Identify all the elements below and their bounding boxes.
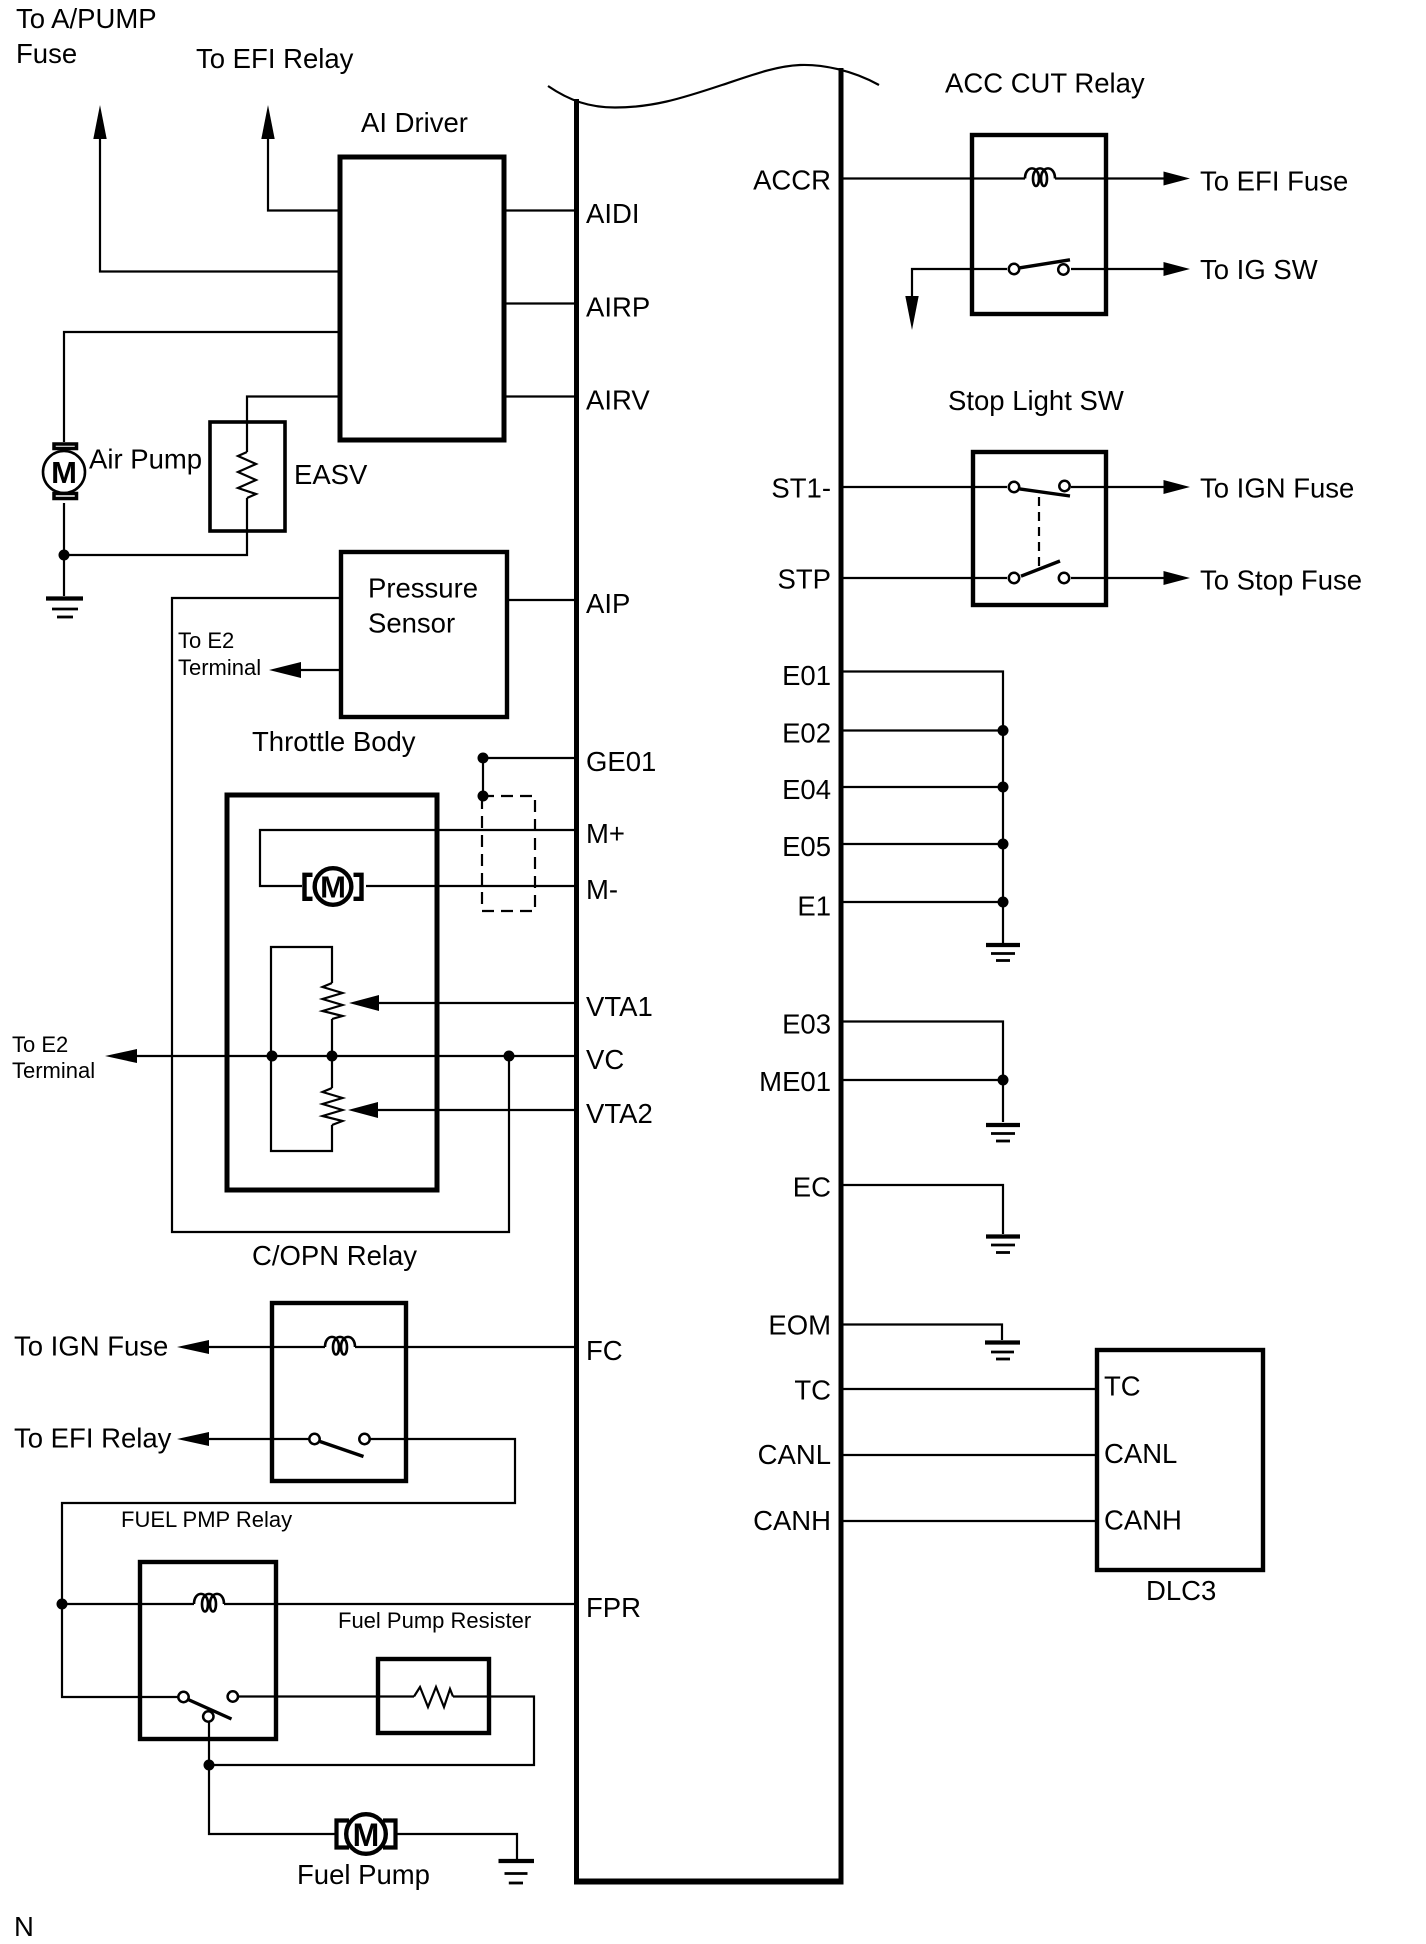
arrow VC to E2 terminal: [105, 1049, 137, 1063]
wire FC left of coil: [205, 1346, 325, 1348]
svg-text:FC: FC: [586, 1335, 623, 1366]
arrow to A/PUMP fuse: [93, 105, 106, 139]
svg-text:E1: E1: [797, 891, 831, 922]
svg-text:ST1-: ST1-: [771, 473, 831, 504]
arrow to EFI relay: [177, 1432, 209, 1446]
Pressure Sensor: [341, 552, 507, 717]
junction shield: [478, 791, 489, 802]
ground (fuel pump): [499, 1861, 535, 1883]
wire AIP: [507, 599, 576, 601]
wire AIDI to EFI relay: [268, 137, 338, 211]
svg-text:M: M: [320, 870, 346, 905]
resistor VTA1: [323, 983, 343, 1019]
ECU top break (wavy line): [548, 65, 879, 108]
fuel pump resister box: [378, 1659, 489, 1733]
svg-text:Stop Light SW: Stop Light SW: [948, 385, 1124, 416]
wire into resistor: [378, 1695, 414, 1697]
wire C/OPN switch to fuel pump relay: [62, 1439, 515, 1697]
svg-text:M: M: [51, 455, 77, 490]
svg-text:EOM: EOM: [768, 1310, 831, 1341]
svg-text:CANH: CANH: [1104, 1505, 1182, 1536]
arrow to EFI fuse: [1164, 172, 1191, 186]
junction E02: [998, 725, 1009, 736]
right edge middle segment: [331, 1019, 333, 1088]
wire GE01: [483, 757, 576, 759]
svg-text:Air Pump: Air Pump: [89, 444, 202, 475]
wire VC loop to pressure sensor: [172, 598, 509, 1232]
wire AIRP to A/PUMP fuse: [100, 137, 338, 272]
svg-text:Throttle Body: Throttle Body: [252, 726, 416, 757]
svg-text:GE01: GE01: [586, 746, 656, 777]
junction VC pot wiper: [327, 1051, 338, 1062]
resistor inside EASV: [238, 452, 256, 498]
wire M+: [260, 830, 576, 886]
svg-text:C/OPN Relay: C/OPN Relay: [252, 1240, 417, 1271]
svg-text:M+: M+: [586, 818, 625, 849]
wire air pump to ground: [63, 503, 65, 596]
junction FPR: [57, 1599, 68, 1610]
wire CANH: [841, 1520, 1097, 1522]
ACC switch blade: [1020, 260, 1070, 268]
svg-text:AI Driver: AI Driver: [361, 107, 468, 138]
svg-text:Fuel Pump: Fuel Pump: [297, 1859, 430, 1890]
arrow to IGN fuse: [1164, 480, 1191, 494]
wire AIRV: [504, 395, 576, 397]
junction VC loop: [504, 1051, 515, 1062]
ECU main box: right edge: [839, 68, 844, 1884]
svg-text:Terminal: Terminal: [12, 1058, 95, 1083]
svg-text:Fuse: Fuse: [16, 38, 77, 69]
svg-text:E05: E05: [782, 831, 831, 862]
wire CANL: [841, 1454, 1097, 1456]
fuel pmp switch contact right: [228, 1691, 238, 1701]
resistor element: [414, 1687, 453, 1707]
throttle motor M: [305, 868, 362, 905]
wire E04: [841, 786, 1003, 788]
DLC3 connector: [1097, 1350, 1263, 1570]
arrow VTA1 wiper: [349, 995, 379, 1011]
svg-text:To E2: To E2: [178, 628, 234, 653]
svg-text:Sensor: Sensor: [368, 608, 455, 639]
arrow to IGN fuse: [177, 1340, 209, 1354]
relay coil (C/OPN): [325, 1337, 355, 1355]
wire ST1-: [841, 486, 1007, 488]
svg-text:To A/PUMP: To A/PUMP: [16, 3, 157, 34]
wire switch to resistor: [239, 1695, 378, 1697]
C/OPN switch contact left: [309, 1434, 319, 1444]
FUEL PMP relay box: [140, 1562, 276, 1739]
air pump motor M: [43, 444, 85, 499]
stop SW blade (bottom): [1021, 561, 1060, 576]
svg-text:E02: E02: [782, 718, 831, 749]
wire TC: [841, 1388, 1097, 1390]
junction E04: [998, 782, 1009, 793]
stop SW link (dashed): [1038, 497, 1040, 567]
wire to EFI relay: [207, 1438, 310, 1440]
junction E1: [998, 897, 1009, 908]
ECU main box: left edge: [574, 99, 579, 1884]
wire E05: [841, 843, 1003, 845]
wire VC: [135, 1055, 576, 1057]
junction fuel pump: [204, 1760, 215, 1771]
ECU main box: bottom edge: [574, 1879, 844, 1885]
wire FPR left of coil: [62, 1603, 194, 1605]
ground (air pump): [46, 599, 83, 618]
svg-text:N: N: [14, 1911, 34, 1942]
wire AIDI: [504, 209, 576, 211]
arrow to EFI relay: [261, 105, 274, 139]
wire EC: [841, 1185, 1003, 1234]
fuel pmp switch blade: [187, 1699, 232, 1719]
fuel pmp switch contact left: [178, 1692, 188, 1702]
wire EOM: [841, 1325, 1002, 1341]
svg-text:VC: VC: [586, 1044, 624, 1075]
ground (E01 group): [986, 945, 1020, 961]
svg-text:E04: E04: [782, 774, 831, 805]
stop SW blade (top): [1020, 489, 1070, 496]
svg-text:FPR: FPR: [586, 1592, 641, 1623]
wire E02: [841, 729, 1003, 731]
C/OPN switch contact right: [359, 1434, 369, 1444]
svg-text:To EFI Relay: To EFI Relay: [14, 1423, 172, 1454]
svg-text:CANL: CANL: [758, 1439, 831, 1470]
wire VTA1: [377, 1002, 576, 1004]
ACC switch contact left: [1009, 264, 1019, 274]
ground (E03/ME01): [986, 1125, 1020, 1141]
arrow to E2 terminal (pressure sensor): [269, 662, 301, 678]
junction GE01: [478, 753, 489, 764]
junction E05: [998, 839, 1009, 850]
svg-text:Pressure: Pressure: [368, 573, 478, 604]
wire resistor out: [209, 1697, 534, 1766]
wire VTA2: [376, 1109, 576, 1111]
wire to stop fuse: [1071, 577, 1165, 579]
relay coil (ACC CUT): [1025, 168, 1055, 186]
fuel pump motor M: [337, 1814, 396, 1854]
wire to IGN fuse: [1071, 486, 1165, 488]
arrow VTA2 wiper: [348, 1102, 378, 1118]
svg-text:AIRP: AIRP: [586, 292, 650, 323]
ACC switch contact right: [1058, 264, 1068, 274]
arrow down (ACC): [905, 296, 918, 330]
stop SW contact left (bottom): [1009, 573, 1019, 583]
C/OPN switch blade: [320, 1442, 364, 1457]
wire E03: [841, 1022, 1003, 1123]
C/OPN relay box: [272, 1303, 406, 1481]
arrow to IG SW: [1164, 262, 1191, 276]
svg-text:To E2: To E2: [12, 1032, 68, 1057]
stop SW contact right (bottom): [1059, 573, 1069, 583]
svg-text:EC: EC: [793, 1172, 831, 1203]
junction ME01: [998, 1075, 1009, 1086]
wire pressure sensor to E2 terminal: [299, 669, 341, 671]
wire FC right of coil: [355, 1346, 576, 1348]
svg-text:M: M: [353, 1817, 380, 1853]
svg-text:AIP: AIP: [586, 588, 630, 619]
svg-text:Fuel Pump Resister: Fuel Pump Resister: [338, 1608, 531, 1633]
svg-text:M-: M-: [586, 874, 618, 905]
svg-text:E01: E01: [782, 660, 831, 691]
svg-text:To EFI Relay: To EFI Relay: [196, 43, 354, 74]
EASV valve: [210, 422, 285, 531]
svg-text:To Stop Fuse: To Stop Fuse: [1200, 565, 1362, 596]
throttle body box: [227, 795, 437, 1190]
junction VC pot left: [267, 1051, 278, 1062]
fuel pmp switch contact bottom: [203, 1711, 213, 1721]
throttle position sensor body: [271, 947, 332, 1151]
ground (EC): [986, 1237, 1020, 1253]
stop SW contact right (top): [1059, 481, 1069, 491]
wire fuel pump to ground: [396, 1834, 517, 1859]
svg-text:ACCR: ACCR: [753, 165, 831, 196]
svg-text:FUEL PMP Relay: FUEL PMP Relay: [121, 1507, 292, 1532]
shield connector (dashed): [482, 796, 535, 911]
svg-text:CANL: CANL: [1104, 1438, 1177, 1469]
svg-text:EASV: EASV: [294, 459, 368, 490]
svg-text:TC: TC: [794, 1375, 831, 1406]
wire M-: [366, 885, 576, 887]
svg-text:To IGN Fuse: To IGN Fuse: [1200, 473, 1354, 504]
svg-text:ACC CUT Relay: ACC CUT Relay: [945, 68, 1145, 99]
wire to IG SW: [1071, 268, 1165, 270]
svg-text:STP: STP: [778, 564, 831, 595]
svg-text:To IGN Fuse: To IGN Fuse: [14, 1331, 168, 1362]
svg-text:DLC3: DLC3: [1146, 1575, 1216, 1606]
svg-text:To IG SW: To IG SW: [1200, 254, 1318, 285]
wire AI Driver to air pump: [64, 332, 340, 442]
stop SW contact left (top): [1009, 482, 1019, 492]
wire GE01 to shield: [482, 758, 484, 796]
stop light SW box: [973, 452, 1106, 605]
junction air pump / EASV: [59, 550, 70, 561]
relay coil (FUEL PMP): [194, 1594, 224, 1612]
svg-text:TC: TC: [1104, 1371, 1141, 1402]
wire E1: [841, 901, 1003, 903]
wire E01: [841, 672, 1003, 944]
ACC CUT relay box: [972, 135, 1106, 314]
AI Driver U1: [340, 157, 504, 440]
svg-text:VTA1: VTA1: [586, 991, 653, 1022]
svg-text:AIRV: AIRV: [586, 385, 650, 416]
svg-text:E03: E03: [782, 1009, 831, 1040]
wire to EFI fuse: [1055, 177, 1165, 179]
svg-text:CANH: CANH: [753, 1505, 831, 1536]
resistor VTA2: [323, 1088, 343, 1125]
arrow to stop fuse: [1164, 571, 1191, 585]
wire AIRP: [504, 302, 576, 304]
svg-text:VTA2: VTA2: [586, 1098, 653, 1129]
ground (EOM): [985, 1343, 1020, 1360]
wire switch bottom to fuel pump: [209, 1722, 336, 1834]
svg-text:AIDI: AIDI: [586, 198, 639, 229]
wire STP: [841, 577, 1007, 579]
wire ME01: [841, 1079, 1003, 1081]
wire ACC switch down arrow: [912, 269, 1007, 298]
wire ACCR: [841, 177, 1025, 179]
svg-text:Terminal: Terminal: [178, 655, 261, 680]
svg-text:ME01: ME01: [759, 1066, 831, 1097]
wire FPR right of coil: [224, 1603, 576, 1605]
wire EASV bottom to air pump: [64, 498, 247, 555]
svg-text:To EFI Fuse: To EFI Fuse: [1200, 166, 1348, 197]
wire AI Driver to EASV: [247, 397, 340, 453]
